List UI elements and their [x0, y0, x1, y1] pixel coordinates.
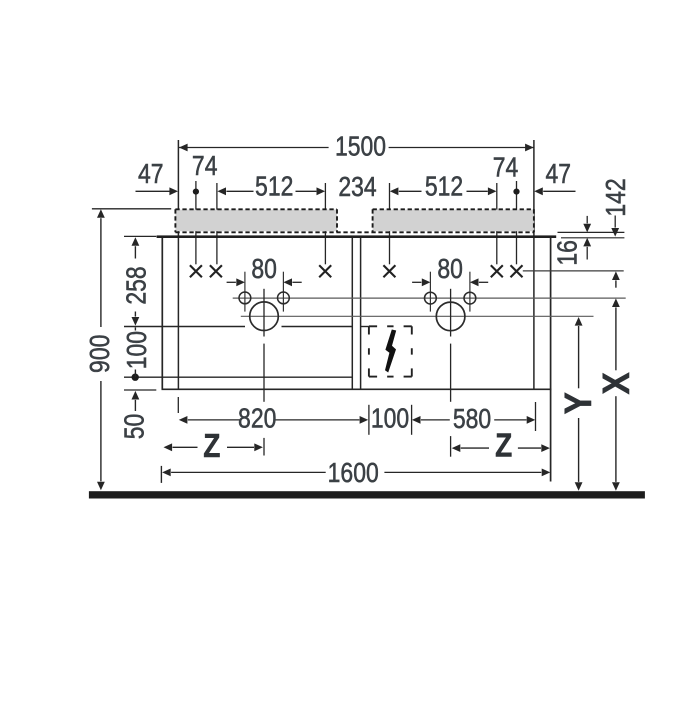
svg-text:Z: Z	[203, 428, 220, 465]
svg-text:Z: Z	[495, 427, 512, 464]
svg-text:80: 80	[437, 254, 463, 285]
svg-text:900: 900	[85, 335, 116, 373]
svg-text:80: 80	[251, 254, 277, 285]
svg-text:X: X	[595, 372, 637, 394]
svg-text:1500: 1500	[335, 131, 386, 162]
svg-text:1600: 1600	[328, 458, 379, 489]
svg-text:74: 74	[192, 151, 218, 182]
svg-text:47: 47	[138, 159, 164, 190]
svg-text:820: 820	[238, 403, 276, 434]
svg-text:580: 580	[453, 404, 491, 435]
svg-text:47: 47	[546, 159, 572, 190]
svg-text:258: 258	[121, 266, 152, 304]
svg-text:142: 142	[601, 178, 632, 216]
svg-text:50: 50	[119, 414, 150, 440]
svg-text:Y: Y	[557, 392, 599, 414]
svg-text:74: 74	[493, 153, 519, 184]
svg-text:512: 512	[425, 172, 463, 203]
svg-text:234: 234	[338, 172, 376, 203]
svg-text:100: 100	[371, 403, 409, 434]
svg-text:512: 512	[255, 172, 293, 203]
svg-text:16: 16	[553, 240, 584, 266]
svg-text:100: 100	[122, 331, 153, 369]
